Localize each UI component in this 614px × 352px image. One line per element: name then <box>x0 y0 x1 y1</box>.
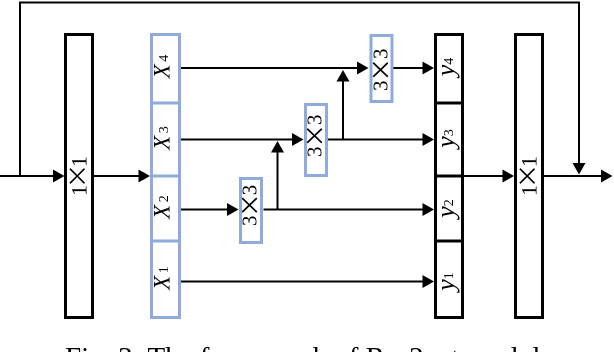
svg-text:X: X <box>150 63 175 79</box>
svg-text:1: 1 <box>516 156 541 167</box>
svg-text:3: 3 <box>369 49 393 60</box>
svg-text:X: X <box>150 135 175 151</box>
svg-text:4: 4 <box>157 55 172 62</box>
svg-text:1: 1 <box>66 156 91 167</box>
svg-text:3: 3 <box>303 115 327 126</box>
svg-text:y: y <box>431 64 460 79</box>
svg-text:1: 1 <box>442 272 457 279</box>
svg-text:3: 3 <box>238 185 262 196</box>
svg-text:4: 4 <box>442 58 457 65</box>
svg-text:2: 2 <box>442 199 457 206</box>
svg-text:y: y <box>431 136 460 151</box>
svg-text:3: 3 <box>303 147 327 158</box>
svg-text:X: X <box>150 204 175 220</box>
svg-text:3: 3 <box>157 126 172 133</box>
svg-text:3: 3 <box>442 129 457 136</box>
svg-text:Fig. 3: The framework of Res2n: Fig. 3: The framework of Res2net module <box>65 342 553 352</box>
svg-text:y: y <box>431 279 460 294</box>
svg-text:3: 3 <box>238 215 262 226</box>
svg-text:1: 1 <box>516 185 541 196</box>
svg-text:y: y <box>431 206 460 221</box>
svg-text:3: 3 <box>369 81 393 92</box>
svg-text:2: 2 <box>157 195 172 202</box>
svg-text:1: 1 <box>66 185 91 196</box>
svg-text:X: X <box>150 275 175 291</box>
svg-text:1: 1 <box>157 266 172 273</box>
